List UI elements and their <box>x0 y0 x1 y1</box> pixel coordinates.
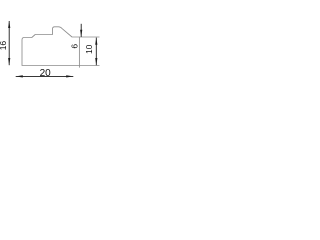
svg-text:20: 20 <box>40 68 52 79</box>
svg-text:6: 6 <box>0 41 8 46</box>
svg-text:1: 1 <box>84 49 94 54</box>
svg-text:6: 6 <box>69 44 79 49</box>
svg-text:1: 1 <box>0 45 8 50</box>
svg-text:0: 0 <box>84 44 94 49</box>
